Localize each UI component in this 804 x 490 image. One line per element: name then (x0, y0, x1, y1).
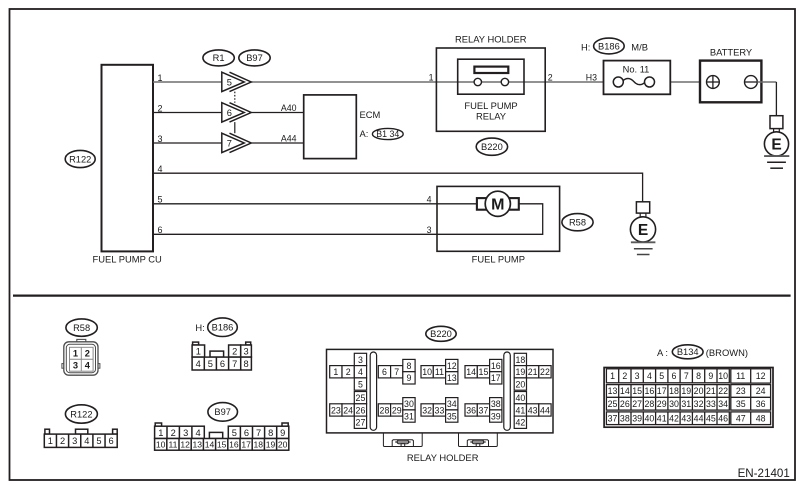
svg-text:A40: A40 (281, 103, 297, 113)
svg-text:26: 26 (356, 405, 366, 415)
svg-text:39: 39 (491, 411, 501, 421)
svg-text:1: 1 (429, 73, 434, 83)
svg-text:36: 36 (756, 399, 766, 409)
svg-text:2: 2 (548, 73, 553, 83)
svg-text:25: 25 (608, 399, 618, 409)
fuse element s-curve (623, 79, 646, 85)
svg-text:19: 19 (681, 386, 691, 396)
svg-text:B134: B134 (677, 347, 699, 357)
svg-text:A :: A : (657, 347, 668, 358)
svg-text:24: 24 (756, 386, 766, 396)
B186 connector body (192, 342, 251, 370)
svg-text:B220: B220 (481, 142, 503, 152)
svg-text:7: 7 (232, 359, 237, 369)
R58 pin grid (70, 347, 94, 371)
connector label B97s (239, 50, 270, 66)
svg-text:2: 2 (60, 436, 65, 446)
svg-text:7: 7 (394, 367, 399, 377)
section separator line (13, 295, 791, 297)
B220 mounting tab left (383, 433, 422, 447)
svg-text:8: 8 (406, 361, 411, 371)
B220 pins 18 19 20 (514, 353, 526, 390)
svg-text:13: 13 (608, 386, 618, 396)
svg-text:3: 3 (158, 134, 163, 144)
svg-text:32: 32 (422, 405, 432, 415)
svg-text:E: E (771, 136, 781, 153)
dashed link between arrows 5 and 6 (234, 92, 236, 103)
svg-text:17: 17 (241, 440, 251, 450)
svg-text:4: 4 (85, 361, 91, 371)
B220 pins 40 41 42 (514, 392, 526, 429)
connector arrow 5 (222, 72, 251, 91)
svg-text:45: 45 (706, 413, 716, 423)
svg-text:6: 6 (382, 367, 387, 377)
svg-text:9: 9 (406, 373, 411, 383)
svg-text:2: 2 (622, 371, 627, 381)
svg-text:BATTERY: BATTERY (710, 47, 753, 58)
svg-text:R1: R1 (213, 53, 225, 63)
wire 6: CU pin6 to fuel pump return (153, 204, 543, 235)
svg-text:9: 9 (708, 371, 713, 381)
svg-text:14: 14 (205, 440, 215, 450)
relay contact circle right (501, 78, 508, 85)
B220 guide bar right (504, 352, 511, 430)
svg-text:4: 4 (427, 194, 432, 204)
svg-text:29: 29 (392, 405, 402, 415)
svg-text:H3: H3 (586, 73, 597, 83)
svg-text:R58: R58 (73, 323, 90, 333)
svg-text:41: 41 (657, 413, 667, 423)
svg-text:33: 33 (435, 405, 445, 415)
svg-text:15: 15 (632, 386, 642, 396)
wire 3: CU pin3 to arrow 7 (153, 142, 222, 144)
svg-text:14: 14 (620, 386, 630, 396)
svg-text:1: 1 (73, 349, 78, 359)
svg-text:44: 44 (540, 405, 550, 415)
relay holder box (436, 48, 545, 131)
B220 pins 25 26 27 (354, 392, 366, 429)
wire 1: CU pin1 to connector arrow 5 (gray feed) (153, 81, 222, 83)
svg-text:7: 7 (256, 428, 261, 438)
svg-text:5: 5 (158, 195, 163, 205)
fuse terminal circle right (645, 77, 655, 87)
svg-text:15: 15 (217, 440, 227, 450)
battery box (700, 61, 761, 103)
svg-text:19: 19 (266, 440, 276, 450)
svg-text:38: 38 (491, 399, 501, 409)
connector label R58b (66, 319, 97, 336)
B220 pins 14 15 (465, 366, 490, 378)
svg-text:13: 13 (447, 373, 457, 383)
svg-text:48: 48 (756, 413, 766, 423)
B220 pins 21 22 (527, 366, 552, 378)
wire 4: CU pin4 to ground drop (153, 173, 643, 202)
svg-text:1: 1 (333, 367, 338, 377)
svg-text:5: 5 (358, 379, 363, 389)
connector label B220b (426, 326, 456, 341)
B220 pins 28 29 (378, 404, 403, 416)
svg-text:3: 3 (358, 355, 363, 365)
svg-text:22: 22 (718, 386, 728, 396)
B220 pins 34 35 (446, 398, 458, 423)
svg-text:RELAY HOLDER: RELAY HOLDER (407, 452, 479, 463)
svg-text:B186: B186 (212, 323, 234, 333)
svg-text:4: 4 (84, 436, 89, 446)
svg-text:6: 6 (220, 359, 225, 369)
svg-text:16: 16 (229, 440, 239, 450)
svg-text:7: 7 (684, 371, 689, 381)
connector label B186s (594, 38, 625, 54)
wire 2: CU pin2 to arrow 6 (153, 112, 222, 114)
connector label B186b (208, 318, 238, 337)
svg-text:2: 2 (232, 346, 237, 356)
battery positive terminal (707, 76, 720, 89)
svg-text:14: 14 (466, 367, 476, 377)
svg-text:2: 2 (85, 349, 90, 359)
svg-text:10: 10 (718, 371, 728, 381)
B134 pins 37-46 (606, 412, 729, 425)
svg-text:R122: R122 (69, 154, 91, 164)
svg-text:3: 3 (73, 361, 78, 371)
svg-text:47: 47 (736, 413, 746, 423)
B134 pins 23 24 35 36 (731, 385, 771, 411)
connector label B220s (476, 138, 507, 155)
svg-text:A44: A44 (281, 134, 297, 144)
connector label B134b (672, 345, 703, 359)
svg-text:6: 6 (227, 108, 232, 118)
svg-text:33: 33 (706, 399, 716, 409)
B220 pins 8 9 (403, 359, 415, 384)
ECM box (304, 95, 357, 159)
svg-text:2: 2 (158, 103, 163, 113)
svg-text:H:: H: (581, 41, 590, 52)
svg-text:38: 38 (620, 413, 630, 423)
svg-text:44: 44 (694, 413, 704, 423)
ground E (battery side) (764, 116, 789, 169)
B220 pins 10 11 (421, 366, 446, 378)
svg-text:41: 41 (515, 405, 525, 415)
svg-text:34: 34 (718, 399, 728, 409)
svg-text:1: 1 (196, 346, 201, 356)
fuse terminal circle left (613, 77, 623, 87)
B134 pins 1-10 (606, 369, 729, 383)
R58 connector body (62, 339, 100, 375)
fuel pump relay inner box (458, 59, 524, 94)
svg-text:21: 21 (528, 367, 538, 377)
svg-text:31: 31 (404, 411, 414, 421)
B220 pins 38 39 (490, 398, 502, 423)
svg-text:28: 28 (645, 399, 655, 409)
svg-text:5: 5 (232, 428, 237, 438)
B220 pins 16 17 (490, 359, 502, 384)
B220 pins 36 37 (465, 404, 490, 416)
fuse box No. 11 (604, 61, 671, 95)
svg-text:2: 2 (346, 367, 351, 377)
svg-text:20: 20 (515, 379, 525, 389)
svg-text:1: 1 (158, 428, 163, 438)
svg-text:4: 4 (647, 371, 652, 381)
svg-text:R122: R122 (70, 409, 92, 419)
svg-text:18: 18 (669, 386, 679, 396)
svg-text:5: 5 (659, 371, 664, 381)
wire: fuse to battery positive (gray) (650, 81, 713, 83)
svg-text:5: 5 (208, 359, 213, 369)
svg-text:1: 1 (610, 371, 615, 381)
motor brush left (477, 198, 487, 210)
svg-text:M/B: M/B (631, 41, 648, 52)
svg-text:5: 5 (227, 77, 232, 87)
connector label R122b (65, 405, 97, 423)
svg-text:11: 11 (736, 371, 745, 381)
svg-text:22: 22 (540, 367, 550, 377)
svg-text:4: 4 (196, 428, 201, 438)
svg-text:10: 10 (422, 367, 432, 377)
B220 connector outline (327, 349, 554, 433)
svg-text:36: 36 (466, 405, 476, 415)
svg-text:32: 32 (694, 399, 704, 409)
svg-text:46: 46 (718, 413, 728, 423)
svg-text:6: 6 (109, 436, 114, 446)
connector label R1 (203, 50, 234, 66)
svg-text:30: 30 (404, 399, 414, 409)
B134 pins 47 48 (731, 412, 771, 425)
svg-text:B220: B220 (430, 329, 452, 339)
R122 connector body (44, 429, 117, 447)
svg-text:24: 24 (343, 405, 353, 415)
svg-text:6: 6 (244, 428, 249, 438)
wire 2 continuation: arrow 6 to ECM pin A40 (251, 112, 304, 114)
svg-text:5: 5 (96, 436, 101, 446)
svg-text:E: E (638, 222, 648, 239)
svg-text:40: 40 (645, 413, 655, 423)
svg-text:EN-21401: EN-21401 (738, 467, 790, 480)
B134 pins 11 12 (731, 369, 771, 383)
battery negative terminal (745, 76, 758, 89)
svg-text:RELAY HOLDER: RELAY HOLDER (455, 34, 527, 45)
svg-text:13: 13 (193, 440, 203, 450)
svg-text:12: 12 (447, 361, 457, 371)
B220 pins 6 7 (378, 366, 403, 378)
ground E (fuel pump side) (630, 202, 655, 255)
svg-text:3: 3 (635, 371, 640, 381)
svg-text:3: 3 (244, 346, 249, 356)
svg-text:FUEL PUMP CU: FUEL PUMP CU (93, 253, 163, 264)
svg-text:10: 10 (156, 440, 166, 450)
svg-text:35: 35 (447, 411, 457, 421)
B220 pins 3 4 5 (354, 353, 366, 390)
relay coil bar (474, 67, 508, 73)
svg-text:R58: R58 (569, 218, 586, 228)
svg-text:1: 1 (48, 436, 53, 446)
B220 pins 32 33 (421, 404, 446, 416)
solid link between arrows 6 and 7 (234, 122, 236, 133)
svg-text:B186: B186 (598, 41, 620, 51)
svg-text:B1 34: B1 34 (376, 129, 399, 139)
svg-text:ECM: ECM (360, 109, 381, 120)
svg-text:42: 42 (669, 413, 679, 423)
wire 3 continuation: arrow 7 to ECM pin A44 (251, 142, 304, 144)
motor brush right (509, 198, 519, 210)
B220 pins 23 24 (330, 404, 355, 416)
svg-text:15: 15 (479, 367, 489, 377)
svg-text:42: 42 (515, 418, 525, 428)
svg-text:37: 37 (608, 413, 618, 423)
svg-text:1: 1 (158, 73, 163, 83)
svg-text:H:: H: (195, 322, 204, 333)
svg-text:8: 8 (696, 371, 701, 381)
svg-text:28: 28 (380, 405, 390, 415)
connector arrow 6 (222, 103, 251, 122)
svg-text:B97: B97 (214, 407, 231, 417)
svg-text:43: 43 (681, 413, 691, 423)
svg-text:30: 30 (669, 399, 679, 409)
svg-text:2: 2 (171, 428, 176, 438)
B134 connector outline (604, 368, 773, 428)
svg-text:43: 43 (528, 405, 538, 415)
svg-text:23: 23 (331, 405, 341, 415)
svg-text:18: 18 (254, 440, 264, 450)
connector label B134s (372, 128, 403, 139)
wire 1 continuation: arrow 5 to relay/fuse (gray feed) (251, 81, 618, 83)
B220 pins 30 31 (403, 398, 415, 423)
motor M circle (485, 191, 510, 216)
svg-text:16: 16 (491, 361, 501, 371)
connector label B97b (208, 403, 238, 422)
svg-text:19: 19 (515, 367, 525, 377)
fuel pump box (437, 186, 560, 251)
svg-text:17: 17 (491, 373, 501, 383)
svg-text:FUEL PUMP: FUEL PUMP (472, 254, 525, 265)
svg-text:4: 4 (196, 359, 201, 369)
svg-text:A:: A: (360, 128, 369, 139)
svg-text:20: 20 (694, 386, 704, 396)
svg-text:6: 6 (672, 371, 677, 381)
svg-text:12: 12 (756, 371, 766, 381)
svg-text:4: 4 (358, 367, 363, 377)
B97 connector body (155, 423, 289, 450)
svg-text:6: 6 (158, 225, 163, 235)
svg-text:23: 23 (736, 386, 746, 396)
relay contact circle left (474, 78, 481, 85)
B220 pins 1 2 (330, 366, 355, 378)
svg-text:37: 37 (479, 405, 489, 415)
svg-text:27: 27 (632, 399, 642, 409)
connector label R122 (65, 150, 95, 167)
svg-text:11: 11 (435, 367, 444, 377)
B134 pins 13-34 (606, 385, 729, 411)
svg-text:20: 20 (278, 440, 288, 450)
svg-text:3: 3 (183, 428, 188, 438)
fuel pump control unit box (102, 65, 154, 252)
svg-text:35: 35 (736, 399, 746, 409)
svg-text:34: 34 (447, 399, 457, 409)
svg-text:4: 4 (158, 164, 163, 174)
svg-text:B97: B97 (246, 53, 263, 63)
svg-text:12: 12 (180, 440, 190, 450)
svg-text:16: 16 (645, 386, 655, 396)
svg-text:8: 8 (268, 428, 273, 438)
svg-text:39: 39 (632, 413, 642, 423)
wire: battery negative to ground (gray then black drop) (757, 81, 776, 83)
svg-text:25: 25 (356, 393, 366, 403)
svg-text:40: 40 (515, 393, 525, 403)
svg-text:8: 8 (244, 359, 249, 369)
connector arrow 7 (222, 133, 251, 152)
B220 pins 43 44 (527, 404, 552, 416)
svg-text:17: 17 (657, 386, 667, 396)
svg-text:No. 11: No. 11 (623, 64, 650, 74)
svg-text:RELAY: RELAY (476, 111, 507, 122)
B220 pins 12 13 (446, 359, 458, 384)
svg-text:(BROWN): (BROWN) (706, 347, 748, 358)
svg-text:18: 18 (515, 355, 525, 365)
svg-text:7: 7 (227, 138, 232, 148)
svg-text:29: 29 (657, 399, 667, 409)
svg-text:21: 21 (706, 386, 716, 396)
connector label R58s (562, 214, 593, 231)
svg-text:3: 3 (72, 436, 77, 446)
svg-text:27: 27 (356, 418, 366, 428)
svg-text:26: 26 (620, 399, 630, 409)
B220 guide bar left (370, 352, 376, 430)
svg-text:11: 11 (168, 440, 177, 450)
svg-text:M: M (491, 196, 504, 213)
B220 mounting tab right (459, 433, 498, 447)
svg-text:31: 31 (681, 399, 691, 409)
wire 5: CU pin5 to fuel pump motor (153, 203, 477, 205)
svg-text:9: 9 (280, 428, 285, 438)
svg-text:3: 3 (427, 225, 432, 235)
